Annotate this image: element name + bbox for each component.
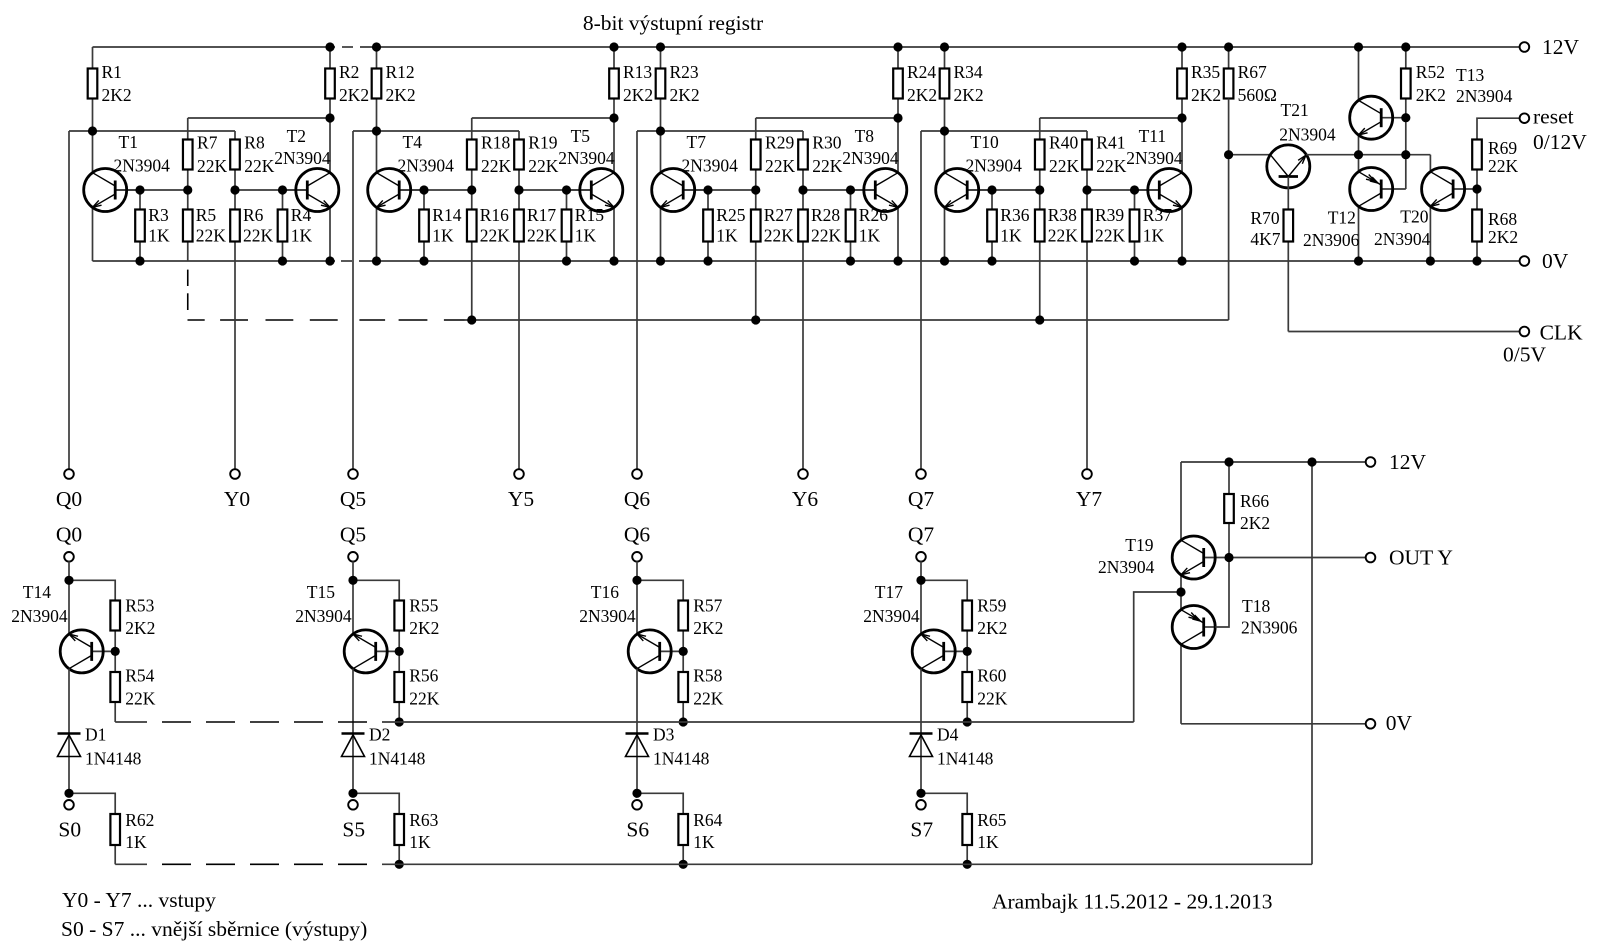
svg-text:T5: T5: [571, 126, 591, 146]
wire cross-couple (y=118) R18 to R13: [472, 117, 614, 119]
node dots control section: [1224, 42, 1482, 265]
terminal Q6: [624, 469, 651, 511]
transistor T11: [1126, 118, 1191, 261]
svg-text:R2: R2: [339, 62, 359, 82]
wire base node right segment T2: [235, 189, 307, 191]
resistor R62: [110, 810, 154, 864]
terminal S5: [342, 800, 365, 842]
terminal S7: [910, 800, 933, 842]
svg-text:2K2: 2K2: [977, 618, 1007, 638]
svg-text:R34: R34: [954, 62, 983, 82]
svg-text:R38: R38: [1048, 205, 1077, 225]
svg-text:R27: R27: [764, 205, 793, 225]
svg-text:R25: R25: [716, 205, 745, 225]
svg-text:2K2: 2K2: [1416, 85, 1446, 105]
svg-text:22K: 22K: [1488, 156, 1519, 176]
svg-text:R63: R63: [409, 810, 438, 830]
svg-text:2N3904: 2N3904: [1374, 229, 1431, 249]
terminal Y0: [224, 469, 250, 511]
svg-text:T10: T10: [971, 132, 999, 152]
svg-text:Q5: Q5: [340, 487, 366, 511]
terminal Y6: [792, 469, 819, 511]
diode D1: [58, 725, 142, 769]
svg-text:R66: R66: [1240, 491, 1269, 511]
svg-text:R65: R65: [977, 810, 1006, 830]
transistor T19: [1098, 462, 1229, 592]
wire Q5 to T15 emitter: [352, 561, 354, 634]
resistor R15: [562, 190, 605, 261]
svg-text:8-bit výstupní registr: 8-bit výstupní registr: [583, 11, 763, 35]
resistor R35: [1177, 47, 1221, 118]
resistor R59: [962, 595, 1007, 651]
transistor T8: [842, 118, 907, 261]
resistor R57: [678, 595, 723, 651]
wire S6 node to R64: [637, 793, 683, 814]
node dots cell Q5: [372, 42, 619, 324]
svg-text:T15: T15: [307, 582, 335, 602]
resistor R66: [1224, 462, 1270, 558]
terminal Q5: [340, 469, 366, 511]
svg-text:D4: D4: [937, 725, 959, 745]
svg-text:S6: S6: [626, 818, 649, 842]
wire CLK bus (dashed section): [188, 270, 465, 320]
node dots lower cell Q7: [916, 576, 971, 869]
terminal 0V (driver): [1366, 711, 1413, 735]
svg-text:R3: R3: [148, 205, 169, 225]
svg-text:1N4148: 1N4148: [937, 749, 994, 769]
svg-text:R56: R56: [409, 666, 438, 686]
svg-text:22K: 22K: [196, 226, 227, 246]
wire 12V top rail: [93, 46, 1521, 48]
svg-text:R17: R17: [527, 205, 556, 225]
svg-text:0/5V: 0/5V: [1503, 343, 1546, 367]
svg-text:560Ω: 560Ω: [1238, 85, 1277, 105]
svg-text:2N3904: 2N3904: [11, 606, 68, 626]
svg-text:R40: R40: [1049, 133, 1078, 153]
svg-text:Q7: Q7: [908, 523, 935, 547]
terminal Q7: [908, 469, 935, 511]
svg-text:22K: 22K: [693, 688, 724, 708]
resistor R27: [751, 190, 794, 320]
resistor R2: [325, 47, 369, 118]
wire Q6 to T16 emitter: [636, 561, 638, 634]
transistor T15: [295, 582, 399, 673]
wire T14 collector to D1: [68, 669, 70, 794]
wire base node left segment T1: [115, 189, 188, 191]
svg-text:22K: 22K: [812, 156, 843, 176]
terminal Q0: [56, 469, 82, 511]
svg-text:22K: 22K: [1096, 156, 1127, 176]
resistor R3: [135, 190, 170, 261]
svg-text:R60: R60: [977, 666, 1006, 686]
resistor R4: [278, 190, 313, 261]
wire reset line: [1477, 118, 1520, 139]
wire Q7 collector rail (y=131): [921, 130, 1087, 132]
transistor T16: [579, 582, 683, 673]
svg-text:1K: 1K: [291, 226, 313, 246]
svg-text:0V: 0V: [1542, 249, 1569, 273]
terminal S6: [626, 800, 649, 842]
svg-text:22K: 22K: [764, 226, 795, 246]
resistor R30: [798, 131, 843, 190]
resistor R18: [467, 133, 512, 191]
svg-text:2N3904: 2N3904: [398, 156, 455, 176]
resistor R14: [419, 190, 462, 261]
svg-text:R58: R58: [693, 666, 722, 686]
svg-text:R69: R69: [1488, 138, 1517, 158]
transistor T17: [863, 582, 967, 673]
svg-text:1K: 1K: [716, 226, 738, 246]
resistor R1: [88, 47, 132, 131]
svg-text:R36: R36: [1000, 205, 1029, 225]
resistor R24: [893, 47, 937, 118]
wire 0V rail: [93, 260, 1521, 262]
svg-text:S7: S7: [910, 818, 933, 842]
wire T20 collector drop: [1429, 155, 1431, 172]
svg-text:1K: 1K: [409, 832, 431, 852]
wire R67 column down to CLK bus: [1228, 99, 1230, 321]
svg-text:R12: R12: [386, 62, 415, 82]
svg-text:Q0: Q0: [56, 523, 82, 547]
svg-text:2K2: 2K2: [1488, 227, 1518, 247]
svg-text:22K: 22K: [1049, 156, 1080, 176]
resistor R13: [609, 47, 653, 118]
svg-text:2K2: 2K2: [1240, 513, 1270, 533]
resistor R34: [940, 47, 984, 131]
svg-text:2K2: 2K2: [339, 85, 369, 105]
wire Q5 node to R55: [353, 580, 399, 600]
svg-text:Arambajk 11.5.2012 - 29.1.2013: Arambajk 11.5.2012 - 29.1.2013: [992, 890, 1272, 914]
svg-text:R62: R62: [125, 810, 154, 830]
terminal CLK: [1503, 321, 1583, 367]
svg-text:1N4148: 1N4148: [85, 749, 142, 769]
svg-text:T16: T16: [591, 582, 619, 602]
node dots lower cell Q0: [64, 576, 119, 798]
svg-text:2N3904: 2N3904: [1279, 125, 1336, 145]
svg-text:Y7: Y7: [1076, 487, 1103, 511]
svg-text:T20: T20: [1400, 207, 1428, 227]
svg-text:1K: 1K: [575, 226, 597, 246]
svg-text:2K2: 2K2: [693, 618, 723, 638]
resistor R55: [394, 595, 439, 651]
resistor R28: [798, 190, 841, 246]
wire cross-couple (y=118) R29 to R24: [756, 117, 898, 119]
svg-text:2K2: 2K2: [954, 85, 984, 105]
svg-text:1N4148: 1N4148: [653, 749, 710, 769]
resistor R63: [394, 810, 438, 864]
svg-text:1K: 1K: [859, 226, 881, 246]
resistor R6: [230, 190, 273, 246]
svg-text:R64: R64: [693, 810, 722, 830]
svg-text:22K: 22K: [197, 156, 228, 176]
svg-text:22K: 22K: [765, 156, 796, 176]
svg-text:1K: 1K: [125, 832, 147, 852]
resistor R17: [514, 190, 557, 246]
transistor T10: [936, 131, 1022, 261]
svg-text:T8: T8: [855, 126, 875, 146]
svg-text:0V: 0V: [1386, 711, 1413, 735]
svg-text:T11: T11: [1139, 126, 1167, 146]
terminal S0: [58, 800, 81, 842]
svg-text:S5: S5: [342, 818, 365, 842]
resistor R41: [1082, 131, 1127, 190]
svg-text:Q5: Q5: [340, 523, 366, 547]
wire base node right segment T11: [1087, 189, 1159, 191]
diode D3: [626, 725, 710, 769]
svg-text:R35: R35: [1191, 62, 1220, 82]
wire Q7 node to R59: [921, 580, 967, 600]
wire T21 emitter to T12/T13/T20: [1306, 154, 1430, 156]
svg-text:T21: T21: [1281, 100, 1309, 120]
svg-text:2N3904: 2N3904: [966, 156, 1023, 176]
svg-text:T18: T18: [1242, 596, 1270, 616]
svg-text:4K7: 4K7: [1250, 229, 1280, 249]
svg-text:R7: R7: [197, 133, 218, 153]
svg-text:R16: R16: [480, 205, 509, 225]
svg-text:22K: 22K: [125, 688, 156, 708]
svg-text:1K: 1K: [1143, 226, 1165, 246]
wire Q5 collector rail (y=131): [353, 130, 519, 132]
svg-text:R23: R23: [670, 62, 699, 82]
wire output bus riser to emitter node: [1134, 592, 1181, 722]
resistor R16: [467, 190, 510, 320]
wire 12V rail (driver): [1181, 461, 1366, 463]
svg-text:22K: 22K: [1095, 226, 1126, 246]
svg-text:2K2: 2K2: [907, 85, 937, 105]
svg-text:S0: S0: [58, 818, 81, 842]
svg-text:T19: T19: [1125, 535, 1153, 555]
svg-text:2K2: 2K2: [409, 618, 439, 638]
transistor T18: [1172, 592, 1297, 724]
svg-text:S0 - S7 ... vnější sběrnice (v: S0 - S7 ... vnější sběrnice (výstupy): [61, 917, 367, 941]
resistor R7: [183, 133, 228, 191]
svg-text:2N3904: 2N3904: [842, 148, 899, 168]
svg-text:2N3904: 2N3904: [863, 606, 920, 626]
node dots lower cell Q5: [348, 576, 403, 869]
wire Q5 line down to terminal: [352, 131, 354, 470]
svg-text:R5: R5: [196, 205, 217, 225]
svg-text:T2: T2: [287, 126, 306, 146]
svg-text:R4: R4: [291, 205, 312, 225]
terminal reset: [1520, 105, 1588, 155]
svg-text:R57: R57: [693, 595, 722, 615]
wire T15 collector to D2: [352, 669, 354, 794]
svg-text:2N3904: 2N3904: [1126, 148, 1183, 168]
svg-text:R41: R41: [1096, 133, 1125, 153]
svg-text:22K: 22K: [811, 226, 842, 246]
svg-text:R6: R6: [243, 205, 264, 225]
svg-text:Y0 - Y7 ... vstupy: Y0 - Y7 ... vstupy: [62, 888, 216, 912]
svg-text:2N3906: 2N3906: [1303, 230, 1360, 250]
svg-text:22K: 22K: [527, 226, 558, 246]
svg-text:T17: T17: [875, 582, 903, 602]
wire base node left segment T4: [399, 189, 472, 191]
wire Q7 line down to terminal: [920, 131, 922, 470]
resistor R54: [110, 651, 155, 722]
svg-text:2N3904: 2N3904: [579, 606, 636, 626]
svg-text:1K: 1K: [432, 226, 454, 246]
wire base node left segment T7: [683, 189, 756, 191]
transistor T20: [1374, 168, 1477, 262]
wire cross-couple (y=118) R40 to R35: [1040, 117, 1182, 119]
svg-text:T14: T14: [23, 582, 51, 602]
svg-text:R53: R53: [125, 595, 154, 615]
svg-text:R19: R19: [528, 133, 557, 153]
svg-text:2N3904: 2N3904: [1456, 86, 1513, 106]
svg-text:2N3904: 2N3904: [558, 148, 615, 168]
svg-text:R1: R1: [102, 62, 122, 82]
svg-text:OUT Y: OUT Y: [1389, 546, 1453, 570]
svg-text:22K: 22K: [244, 156, 274, 176]
svg-text:2N3906: 2N3906: [1241, 618, 1298, 638]
terminal OUT Y: [1366, 546, 1453, 570]
resistor R52: [1401, 47, 1446, 118]
resistor R8: [230, 131, 275, 190]
wire T18 base L from OUT Y node: [1215, 558, 1229, 628]
svg-text:Y0: Y0: [224, 487, 250, 511]
wire base node right segment T8: [803, 189, 875, 191]
svg-text:R55: R55: [409, 595, 438, 615]
wire S bus (dashed then solid, rises to 12V rail): [115, 462, 1312, 864]
svg-text:1K: 1K: [977, 832, 999, 852]
node dots cell Q6: [656, 42, 903, 324]
resistor R5: [183, 190, 226, 261]
resistor R26: [846, 190, 889, 261]
svg-text:22K: 22K: [528, 156, 559, 176]
svg-text:D2: D2: [369, 725, 390, 745]
terminal Y7: [1076, 469, 1103, 511]
svg-text:D1: D1: [85, 725, 106, 745]
transistor T13: [1350, 47, 1513, 155]
resistor R37: [1130, 190, 1173, 261]
resistor R12: [372, 47, 416, 131]
svg-text:R68: R68: [1488, 209, 1517, 229]
svg-text:2N3904: 2N3904: [1098, 557, 1155, 577]
svg-text:T4: T4: [403, 132, 423, 152]
svg-text:R67: R67: [1238, 62, 1267, 82]
wire Q6 collector rail (y=131): [637, 130, 803, 132]
wire Q0 line down to terminal: [68, 131, 70, 470]
svg-text:R18: R18: [481, 133, 510, 153]
resistor R23: [656, 47, 700, 131]
resistor R19: [514, 131, 559, 190]
transistor T12: [1303, 155, 1406, 261]
wire T21 base lead: [1229, 154, 1271, 156]
svg-text:Y6: Y6: [792, 487, 819, 511]
diode D4: [910, 725, 994, 769]
resistor R68: [1472, 189, 1518, 261]
svg-text:22K: 22K: [409, 688, 440, 708]
svg-text:R30: R30: [812, 133, 841, 153]
wire Y6 line down to terminal: [802, 242, 804, 470]
svg-text:R29: R29: [765, 133, 794, 153]
svg-text:Q0: Q0: [56, 487, 82, 511]
resistor R36: [987, 190, 1030, 261]
resistor R60: [962, 651, 1007, 722]
resistor R64: [678, 810, 722, 864]
transistor T1: [84, 131, 170, 261]
resistor R69: [1472, 138, 1518, 189]
svg-text:1N4148: 1N4148: [369, 749, 426, 769]
svg-text:1K: 1K: [1000, 226, 1022, 246]
svg-text:R59: R59: [977, 595, 1006, 615]
svg-text:12V: 12V: [1389, 450, 1427, 474]
terminal 0V: [1520, 249, 1569, 273]
wire Y5 line down to terminal: [518, 242, 520, 470]
terminal Q5 (lower section): [340, 523, 366, 562]
node dots cell Q0: [88, 42, 335, 265]
wire CLK bus (solid section): [465, 319, 1229, 321]
wire Q6 node to R57: [637, 580, 683, 600]
svg-text:2K2: 2K2: [623, 85, 653, 105]
svg-text:22K: 22K: [243, 226, 274, 246]
svg-text:R13: R13: [623, 62, 652, 82]
terminal Q6 (lower section): [624, 523, 651, 562]
wire Q6 line down to terminal: [636, 131, 638, 470]
svg-text:Q6: Q6: [624, 487, 651, 511]
diode D2: [342, 725, 426, 769]
svg-text:2N3904: 2N3904: [295, 606, 352, 626]
transistor T21: [1267, 100, 1336, 210]
svg-text:T13: T13: [1456, 65, 1484, 85]
resistor R40: [1035, 133, 1080, 191]
transistor T4: [368, 131, 454, 261]
svg-text:22K: 22K: [1048, 226, 1079, 246]
svg-text:T7: T7: [687, 132, 707, 152]
svg-text:2N3904: 2N3904: [682, 156, 739, 176]
terminal Q7 (lower section): [908, 523, 935, 562]
resistor R38: [1035, 190, 1078, 320]
svg-text:R8: R8: [244, 133, 265, 153]
resistor R39: [1082, 190, 1125, 246]
svg-text:R70: R70: [1250, 208, 1279, 228]
svg-text:R24: R24: [907, 62, 936, 82]
svg-text:0/12V: 0/12V: [1533, 130, 1587, 154]
resistor R65: [962, 810, 1006, 864]
wire CLK terminal line: [1288, 331, 1520, 333]
svg-text:2K2: 2K2: [670, 85, 700, 105]
svg-text:R14: R14: [432, 205, 461, 225]
svg-text:2K2: 2K2: [125, 618, 155, 638]
wire Q7 to T17 emitter: [920, 561, 922, 634]
resistor R29: [751, 133, 796, 191]
svg-text:R54: R54: [125, 666, 154, 686]
svg-text:reset: reset: [1533, 105, 1574, 129]
wire output bus (R54 row, dashed then solid): [115, 721, 1133, 723]
svg-text:Q6: Q6: [624, 523, 651, 547]
resistor R53: [110, 595, 155, 651]
wire R52 column to T12 base: [1405, 118, 1407, 189]
wire Q0 to T14 emitter: [68, 561, 70, 634]
wire S7 node to R65: [921, 793, 967, 814]
wire Q0 collector rail (y=131): [69, 130, 235, 132]
svg-text:22K: 22K: [481, 156, 512, 176]
svg-text:2K2: 2K2: [386, 85, 416, 105]
transistor T14: [11, 582, 115, 673]
terminal 12V: [1520, 35, 1580, 59]
wire T16 collector to D3: [636, 669, 638, 794]
wire Q0 node to R53: [69, 580, 115, 600]
svg-text:D3: D3: [653, 725, 675, 745]
terminal 12V (driver): [1366, 450, 1427, 474]
svg-text:R39: R39: [1095, 205, 1124, 225]
svg-text:2N3904: 2N3904: [274, 148, 331, 168]
wire Y7 line down to terminal: [1086, 242, 1088, 470]
svg-text:12V: 12V: [1542, 35, 1580, 59]
wire S0 node to R62: [69, 793, 115, 814]
transistor T5: [558, 118, 623, 261]
terminal Q0 (lower section): [56, 523, 82, 562]
